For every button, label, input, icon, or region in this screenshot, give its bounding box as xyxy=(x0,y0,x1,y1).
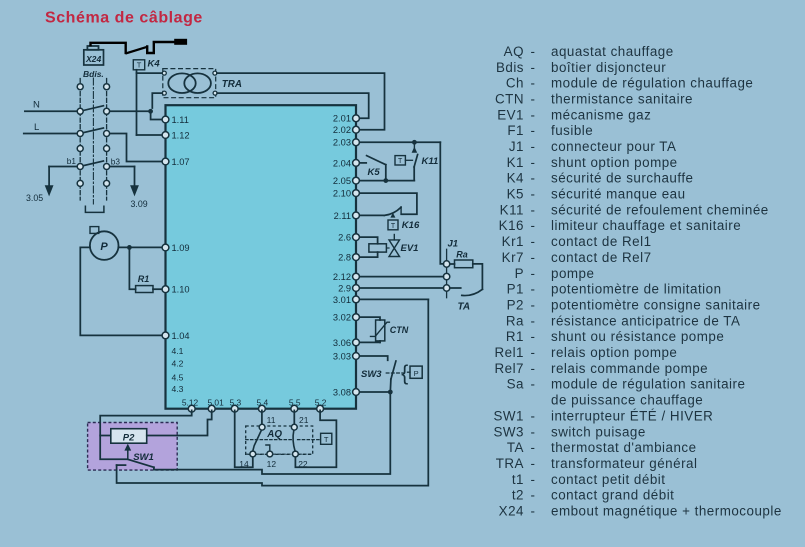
terminal 2.8 xyxy=(338,253,359,263)
terminal 3.08 xyxy=(333,387,360,397)
svg-text:T: T xyxy=(391,223,396,230)
svg-text:switch puisage: switch puisage xyxy=(551,424,646,439)
svg-text:J1: J1 xyxy=(448,239,459,250)
svg-text:embout magnétique + thermocoup: embout magnétique + thermocouple xyxy=(551,504,782,519)
svg-text:12: 12 xyxy=(267,459,277,469)
svg-text:module de régulation chauffage: module de régulation chauffage xyxy=(551,76,753,91)
thermostat TA xyxy=(458,264,483,313)
svg-text:TRA: TRA xyxy=(496,456,524,471)
svg-text:-: - xyxy=(531,171,536,186)
svg-text:SW1: SW1 xyxy=(493,408,524,423)
svg-text:Kr7: Kr7 xyxy=(502,250,524,265)
svg-text:-: - xyxy=(531,202,536,217)
svg-text:1.10: 1.10 xyxy=(172,285,190,295)
wire SW1 blade to 3.08 xyxy=(154,392,390,474)
svg-text:thermistance sanitaire: thermistance sanitaire xyxy=(551,91,693,106)
wire P2 to 5.01 xyxy=(147,410,212,435)
terminal 2.04 xyxy=(333,158,360,168)
svg-text:relais commande pompe: relais commande pompe xyxy=(551,361,708,376)
svg-text:-: - xyxy=(531,504,536,519)
svg-text:R1: R1 xyxy=(506,329,524,344)
wire 5.3 to contact 14 xyxy=(235,410,253,467)
svg-text:X24: X24 xyxy=(85,54,102,64)
svg-text:connecteur pour TA: connecteur pour TA xyxy=(551,139,676,154)
svg-text:1.09: 1.09 xyxy=(172,243,190,253)
svg-text:3.03: 3.03 xyxy=(333,351,351,361)
svg-text:3.06: 3.06 xyxy=(333,338,351,348)
svg-text:{: { xyxy=(401,362,408,385)
svg-text:-: - xyxy=(531,107,536,122)
wire 3.01 to SW1 summer contact xyxy=(117,299,429,485)
mechanical links AQ xyxy=(246,440,321,455)
svg-text:fusible: fusible xyxy=(551,123,593,138)
pump P xyxy=(90,227,119,260)
terminal 5.5 xyxy=(289,398,301,413)
svg-text:Rel7: Rel7 xyxy=(494,361,524,376)
svg-text:K4: K4 xyxy=(507,171,524,186)
legend xyxy=(493,44,781,519)
svg-text:EV1: EV1 xyxy=(401,243,419,254)
terminal 1.09 xyxy=(162,243,190,253)
switch SW3 xyxy=(360,356,422,392)
svg-text:5.3: 5.3 xyxy=(229,398,241,408)
svg-text:2.05: 2.05 xyxy=(333,176,351,186)
terminal 1.04 xyxy=(162,331,190,341)
svg-text:-: - xyxy=(531,488,536,503)
terminal 5.12 xyxy=(182,398,199,413)
wire 2.03 to J1 pin 1 xyxy=(440,142,443,264)
svg-text:-: - xyxy=(531,377,536,392)
svg-text:5.5: 5.5 xyxy=(289,398,301,408)
svg-text:L: L xyxy=(34,122,39,133)
svg-text:-: - xyxy=(531,424,536,439)
wire P to 1.04 xyxy=(80,247,161,335)
svg-text:-: - xyxy=(531,440,536,455)
svg-text:T: T xyxy=(324,435,329,444)
wire 5.2 to contact 22 xyxy=(295,410,336,467)
svg-text:2.6: 2.6 xyxy=(338,233,351,243)
svg-text:4.5: 4.5 xyxy=(172,373,184,383)
svg-text:3.02: 3.02 xyxy=(333,313,351,323)
thermistor CTN xyxy=(360,317,409,342)
svg-text:interrupteur ÉTÉ / HIVER: interrupteur ÉTÉ / HIVER xyxy=(551,408,713,423)
svg-text:contact de Rel7: contact de Rel7 xyxy=(551,250,652,265)
svg-text:résistance anticipatrice de TA: résistance anticipatrice de TA xyxy=(551,313,740,328)
svg-text:K5: K5 xyxy=(368,167,381,178)
svg-text:X24: X24 xyxy=(499,504,524,519)
terminal 5.01 xyxy=(207,398,224,413)
svg-text:shunt option pompe: shunt option pompe xyxy=(551,155,678,170)
svg-text:contact grand débit: contact grand débit xyxy=(551,488,674,503)
terminal 1.12 xyxy=(162,130,190,140)
pin labels 11 21 14 12 22 xyxy=(239,415,308,469)
svg-text:sécurité de surchauffe: sécurité de surchauffe xyxy=(551,171,694,186)
svg-text:3.09: 3.09 xyxy=(131,199,148,209)
terminal 2.6 xyxy=(338,233,359,243)
svg-text:2.11: 2.11 xyxy=(334,211,351,221)
wire P to 1.09 xyxy=(119,245,162,250)
svg-text:3.08: 3.08 xyxy=(333,387,351,397)
terminal 2.05 xyxy=(333,176,360,186)
svg-text:2.10: 2.10 xyxy=(333,189,351,199)
svg-text:SW3: SW3 xyxy=(493,424,524,439)
svg-text:2.02: 2.02 xyxy=(333,125,351,135)
svg-text:EV1: EV1 xyxy=(497,107,524,122)
svg-text:-: - xyxy=(531,329,536,344)
svg-text:21: 21 xyxy=(299,415,309,425)
svg-text:b1: b1 xyxy=(67,156,77,166)
svg-text:R1: R1 xyxy=(138,274,150,284)
wire 5.12 to P2 xyxy=(100,410,192,435)
svg-text:3.01: 3.01 xyxy=(333,295,351,305)
svg-text:TRA: TRA xyxy=(222,79,242,90)
svg-text:2.9: 2.9 xyxy=(338,283,351,293)
svg-text:4.2: 4.2 xyxy=(172,358,184,368)
X24 embout magnétique box xyxy=(84,50,104,65)
svg-text:TA: TA xyxy=(458,301,471,312)
thermocouple wire with safety contact xyxy=(87,39,187,53)
svg-text:1.12: 1.12 xyxy=(172,130,190,140)
svg-text:Sa: Sa xyxy=(507,377,524,392)
svg-text:-: - xyxy=(531,91,536,106)
terminal 3.03 xyxy=(333,351,360,361)
svg-text:2.04: 2.04 xyxy=(333,158,351,168)
svg-text:-: - xyxy=(531,472,536,487)
module Ch block xyxy=(166,105,357,409)
node labels 4.1 4.2 4.5 4.3 xyxy=(172,346,184,394)
svg-text:2.12: 2.12 xyxy=(333,272,351,282)
svg-text:sécurité de refoulement chemin: sécurité de refoulement cheminée xyxy=(551,202,769,217)
terminal 5.3 xyxy=(229,398,241,413)
svg-text:P: P xyxy=(515,266,524,281)
svg-text:b3: b3 xyxy=(111,156,121,166)
svg-text:K16: K16 xyxy=(499,218,524,233)
svg-text:module de régulation sanitaire: module de régulation sanitaire xyxy=(551,377,745,392)
wire 3.08 to SW3 junction xyxy=(360,390,393,395)
svg-text:J1: J1 xyxy=(509,139,524,154)
svg-text:P: P xyxy=(414,369,419,378)
svg-text:2.8: 2.8 xyxy=(338,253,351,263)
svg-text:14: 14 xyxy=(239,459,249,469)
wire TRA bottom-right to 2.01 xyxy=(217,93,369,118)
terminal 3.01 xyxy=(333,295,360,305)
svg-text:TA: TA xyxy=(507,440,524,455)
wire 2.9 to J1 pin 3 xyxy=(360,287,461,289)
contact t1 (11-14-12) xyxy=(250,424,273,457)
svg-text:K11: K11 xyxy=(422,156,439,167)
svg-text:N: N xyxy=(33,100,40,111)
contact b1/b3 row with arrows 3.05 / 3.09 xyxy=(45,156,139,196)
svg-text:t2: t2 xyxy=(512,488,524,503)
svg-text:22: 22 xyxy=(298,459,308,469)
svg-text:Ra: Ra xyxy=(506,313,524,328)
wire 5.4 to contact 11 xyxy=(261,410,263,424)
svg-text:K16: K16 xyxy=(402,220,420,231)
svg-text:transformateur général: transformateur général xyxy=(551,456,697,471)
svg-text:-: - xyxy=(531,76,536,91)
svg-text:contact de Rel1: contact de Rel1 xyxy=(551,234,652,249)
svg-text:thermostat d'ambiance: thermostat d'ambiance xyxy=(551,440,697,455)
svg-text:-: - xyxy=(531,234,536,249)
svg-text:-: - xyxy=(531,155,536,170)
svg-text:relais option pompe: relais option pompe xyxy=(551,345,677,360)
svg-text:Rel1: Rel1 xyxy=(494,345,524,360)
svg-text:P1: P1 xyxy=(507,282,524,297)
svg-text:-: - xyxy=(531,123,536,138)
svg-text:Ch: Ch xyxy=(506,76,524,91)
svg-text:-: - xyxy=(531,282,536,297)
svg-text:Kr1: Kr1 xyxy=(502,234,524,249)
svg-text:boîtier disjoncteur: boîtier disjoncteur xyxy=(551,60,666,75)
svg-text:potentiomètre consigne sanitai: potentiomètre consigne sanitaire xyxy=(551,298,761,313)
svg-text:-: - xyxy=(531,345,536,360)
terminal 2.9 xyxy=(338,283,359,293)
svg-text:pompe: pompe xyxy=(551,266,594,281)
svg-text:11: 11 xyxy=(267,415,276,425)
svg-text:4.1: 4.1 xyxy=(172,346,184,356)
svg-text:-: - xyxy=(531,298,536,313)
terminal 2.11 xyxy=(334,211,360,221)
svg-text:5.4: 5.4 xyxy=(256,398,268,408)
svg-text:-: - xyxy=(531,139,536,154)
terminal 1.07 xyxy=(162,157,190,167)
terminal 3.06 xyxy=(333,338,360,348)
svg-text:sécurité manque eau: sécurité manque eau xyxy=(551,187,686,202)
svg-text:-: - xyxy=(531,44,536,59)
terminal 1.10 xyxy=(162,285,190,295)
svg-text:T: T xyxy=(398,158,403,165)
svg-text:5.01: 5.01 xyxy=(207,398,224,408)
svg-text:t1: t1 xyxy=(512,472,524,487)
svg-text:1.11: 1.11 xyxy=(172,115,189,125)
svg-text:5.2: 5.2 xyxy=(315,398,327,408)
wire 2.12 to J1 pin 2 xyxy=(360,276,443,278)
terminal 2.01 xyxy=(333,114,360,124)
gas valve EV1 xyxy=(360,235,418,258)
terminal 2.12 xyxy=(333,272,360,282)
flue safety contact K11 xyxy=(360,140,440,181)
svg-text:-: - xyxy=(531,60,536,75)
svg-text:-: - xyxy=(531,266,536,281)
wire L to 1.07 xyxy=(24,128,162,162)
terminal 3.02 xyxy=(333,313,360,323)
svg-text:5.12: 5.12 xyxy=(182,398,199,408)
svg-text:SW1: SW1 xyxy=(133,452,154,463)
svg-text:Bdis: Bdis xyxy=(496,60,524,75)
svg-text:3.05: 3.05 xyxy=(26,193,43,203)
terminal 2.10 xyxy=(333,189,360,199)
svg-text:K5: K5 xyxy=(507,187,524,202)
svg-text:K11: K11 xyxy=(500,202,524,217)
svg-text:K4: K4 xyxy=(148,58,161,69)
svg-text:CTN: CTN xyxy=(390,325,409,335)
svg-text:aquastat chauffage: aquastat chauffage xyxy=(551,44,674,59)
svg-text:P2: P2 xyxy=(123,433,135,444)
svg-text:CTN: CTN xyxy=(495,91,524,106)
svg-text:shunt ou résistance pompe: shunt ou résistance pompe xyxy=(551,329,724,344)
wire TRA top-right to 2.02 xyxy=(217,73,385,130)
svg-text:contact petit débit: contact petit débit xyxy=(551,472,665,487)
svg-text:-: - xyxy=(531,250,536,265)
svg-text:K1: K1 xyxy=(507,155,524,170)
aquastat AQ box xyxy=(246,426,313,454)
svg-text:-: - xyxy=(531,456,536,471)
terminal 2.02 xyxy=(333,125,360,135)
svg-text:-: - xyxy=(531,218,536,233)
connector J1 xyxy=(443,239,458,298)
module Sa (P2/SW1) purple box xyxy=(88,423,178,471)
svg-text:SW3: SW3 xyxy=(361,369,382,380)
svg-text:-: - xyxy=(531,361,536,376)
contact t2 (21-22) xyxy=(291,424,298,457)
svg-text:-: - xyxy=(531,408,536,423)
svg-text:Schéma de câblage: Schéma de câblage xyxy=(45,10,203,27)
svg-text:2.01: 2.01 xyxy=(333,114,351,124)
water-pressure contact K5 xyxy=(360,156,414,183)
svg-text:P: P xyxy=(100,241,108,253)
potentiometer P2 xyxy=(111,429,147,444)
svg-text:mécanisme gaz: mécanisme gaz xyxy=(551,107,651,122)
thermal actuator T of AQ xyxy=(321,433,332,444)
svg-text:-: - xyxy=(531,187,536,202)
wire K4 / TRA to 1.12 xyxy=(137,70,163,135)
transformer TRA xyxy=(162,69,242,98)
resistor Ra xyxy=(450,250,473,268)
switch SW1 xyxy=(100,436,154,468)
limiter contact K16 xyxy=(360,193,420,231)
svg-text:1.07: 1.07 xyxy=(172,157,190,167)
terminal 2.03 xyxy=(333,138,360,148)
svg-text:de puissance chauffage: de puissance chauffage xyxy=(551,393,703,408)
terminal 5.2 xyxy=(315,398,327,413)
svg-text:potentiomètre de limitation: potentiomètre de limitation xyxy=(551,282,722,297)
terminal 5.4 xyxy=(256,398,268,413)
svg-text:AQ: AQ xyxy=(504,44,524,59)
svg-text:-: - xyxy=(531,313,536,328)
wire TRA bottom-left to N junction xyxy=(152,93,162,108)
wire N xyxy=(25,106,162,120)
svg-text:Ra: Ra xyxy=(456,250,468,260)
svg-text:limiteur chauffage et sanitair: limiteur chauffage et sanitaire xyxy=(551,218,741,233)
svg-text:T: T xyxy=(137,61,142,70)
terminal 1.11 xyxy=(162,115,189,125)
Bdis boîtier disjoncteur xyxy=(77,69,109,212)
svg-text:2.03: 2.03 xyxy=(333,138,351,148)
svg-text:AQ: AQ xyxy=(266,429,282,440)
svg-text:4.3: 4.3 xyxy=(172,384,184,394)
wire 5.5 to contact 21 xyxy=(293,410,295,424)
svg-text:P2: P2 xyxy=(507,298,524,313)
svg-text:F1: F1 xyxy=(507,123,524,138)
resistor R1 xyxy=(129,247,161,292)
safety contact K4 xyxy=(133,58,160,70)
svg-text:1.04: 1.04 xyxy=(172,331,190,341)
